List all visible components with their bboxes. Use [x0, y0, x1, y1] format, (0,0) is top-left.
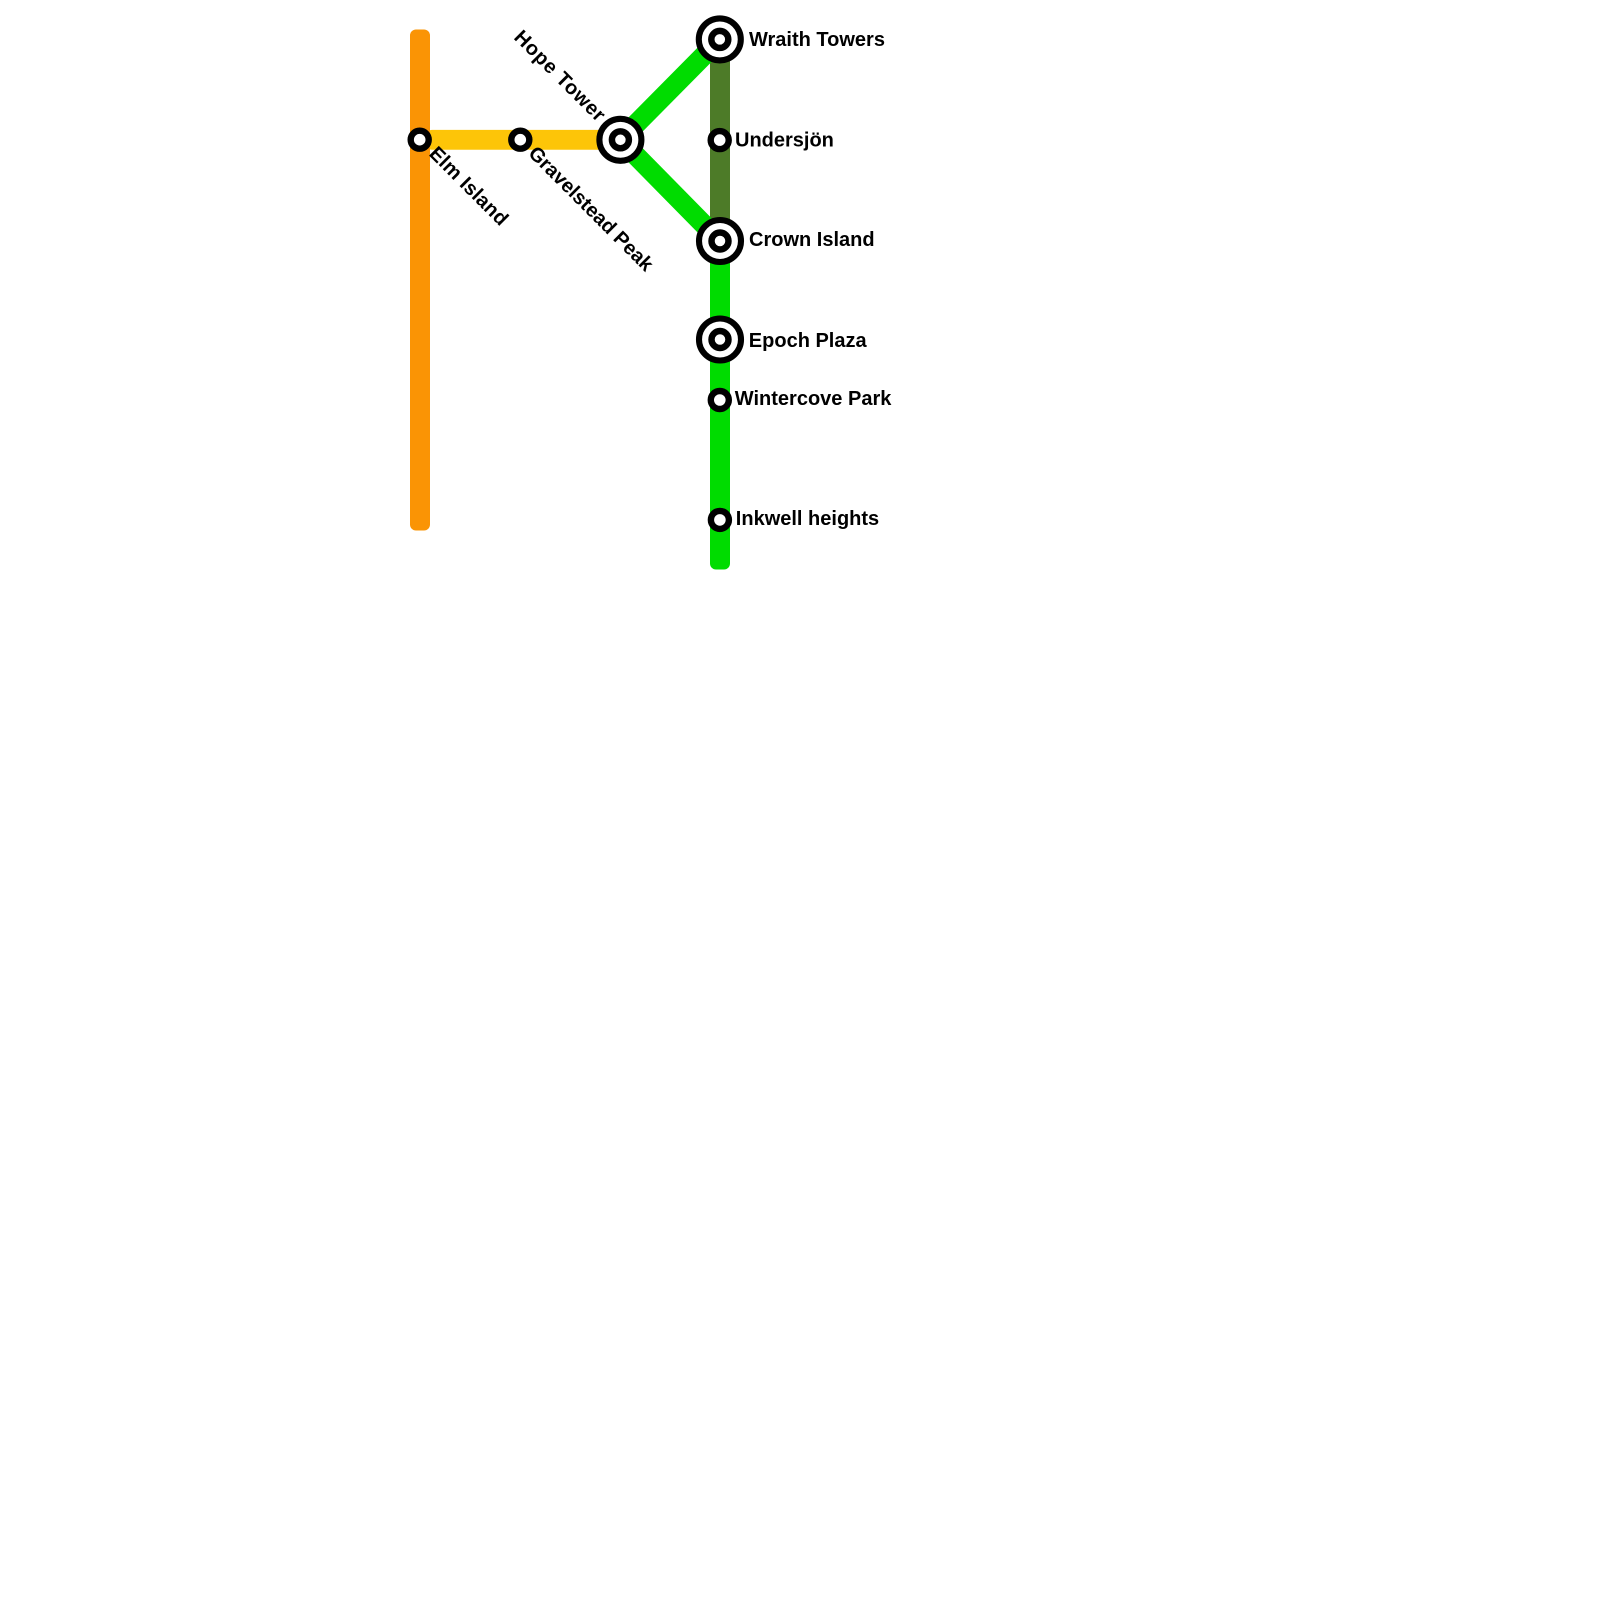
station Hope Tower (interchange) — [599, 119, 641, 161]
wire: green diagonal Hope Tower to Wraith Towers — [620, 39, 719, 139]
svg-text:Epoch Plaza: Epoch Plaza — [749, 330, 868, 352]
svg-text:Wraith Towers: Wraith Towers — [749, 29, 885, 51]
svg-text:Undersjön: Undersjön — [735, 130, 834, 152]
wire: green diagonal Hope Tower to Crown Island — [620, 140, 720, 241]
svg-text:Crown Island: Crown Island — [749, 229, 875, 251]
wire: orange vertical line — [410, 30, 430, 531]
station Epoch Plaza (interchange) — [699, 319, 741, 361]
station Gravelstead Peak — [511, 131, 529, 149]
station Undersjön — [711, 131, 729, 149]
station Wintercove Park — [711, 391, 729, 409]
wire: yellow line Elm Island to Hope Tower — [426, 130, 620, 150]
station Elm Island — [411, 131, 429, 149]
wire: olive line Wraith Towers to Crown Island — [710, 39, 730, 241]
svg-text:Wintercove Park: Wintercove Park — [735, 388, 892, 410]
station Wraith Towers (interchange) — [699, 18, 741, 60]
station Inkwell heights — [711, 511, 729, 529]
station Crown Island (interchange) — [699, 220, 741, 262]
wire: green vertical line Crown Island to bottom — [710, 241, 730, 570]
svg-text:Inkwell heights: Inkwell heights — [736, 508, 879, 530]
